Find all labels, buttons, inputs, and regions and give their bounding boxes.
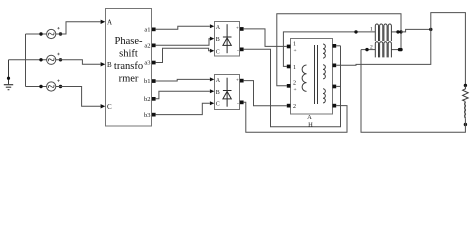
pin 1R of T2 — [333, 44, 337, 48]
pin B of D1 — [210, 37, 220, 44]
svg-text:b1: b1 — [144, 78, 151, 85]
wire: T2 pin 3R stub — [336, 85, 340, 87]
wire: output top rail to load — [431, 13, 466, 86]
svg-text:A: A — [107, 19, 112, 27]
svg-text:transfo: transfo — [114, 61, 143, 72]
node: load bottom dot — [464, 123, 467, 126]
winding primary of T2 — [302, 65, 306, 91]
pin 2+ of T2 — [287, 81, 297, 94]
AC source V1 — [39, 27, 62, 39]
pin 2- of T2 — [287, 104, 296, 110]
rectifier bridge D1 — [215, 22, 240, 57]
svg-text:1: 1 — [370, 26, 373, 32]
pin b3 of U1 — [144, 112, 156, 119]
pin A of D1 — [210, 24, 221, 31]
pin 3R of T2 — [333, 85, 337, 89]
AC source V2 — [39, 53, 62, 65]
ground — [4, 60, 13, 90]
core of T2 — [315, 45, 318, 104]
pin a1 of U1 — [144, 27, 155, 34]
pin A of D2 — [210, 77, 221, 84]
svg-text:A: A — [216, 78, 221, 84]
pin 4R of T2 — [333, 104, 337, 108]
svg-text:2: 2 — [293, 81, 296, 87]
pin minus of D1 — [237, 48, 243, 54]
svg-text:+: + — [236, 27, 239, 32]
AC source V3 — [39, 80, 62, 92]
winding secondary 1 of T2 — [323, 44, 325, 58]
pin 2R of T2 — [333, 64, 337, 68]
transformer U1 phase-shift transformer block — [106, 9, 152, 127]
pin b1 of U1 — [144, 78, 156, 85]
wire: a1 to bridge D1 pin A — [156, 26, 210, 29]
node: interphase windings right junction top — [399, 30, 402, 33]
wire: load bottom to return rail — [361, 50, 465, 133]
svg-text:a3: a3 — [144, 60, 150, 67]
winding secondary 2 of T2 — [323, 65, 325, 79]
multi-winding transformer T2 — [291, 39, 333, 115]
wire: ground to source bus — [9, 59, 47, 61]
wire: D2 minus to bottom rail to T2 pin 4R — [244, 102, 347, 132]
svg-text:B: B — [216, 90, 220, 96]
wire: D1 minus down to bottom rail — [244, 46, 341, 127]
svg-text:C: C — [216, 102, 220, 108]
node: output junction dot — [429, 28, 432, 31]
wire: winding 2 left lead — [361, 49, 375, 51]
wire: V3 to port C — [56, 87, 101, 107]
diode symbol of D1 — [223, 24, 232, 53]
interphase inductor winding 1 — [354, 24, 399, 41]
wire: V1 to port A — [56, 22, 101, 34]
wire: D1 plus to T2 pin 1a — [244, 29, 287, 47]
wire: bus to source V1 — [26, 33, 47, 35]
svg-text:Phase-: Phase- — [115, 36, 143, 47]
pin b2 of U1 — [144, 96, 156, 103]
pin B of D2 — [210, 89, 220, 96]
wire: T2 pin 1R stub — [336, 45, 340, 47]
wire: bus to source V3 — [26, 86, 47, 88]
node: interphase windings right junction bottom — [399, 48, 402, 51]
pin a2 of U1 — [144, 43, 155, 50]
wire: left vertical bus — [25, 34, 27, 87]
wire: top rail from T2 pin 2a to interphase junction — [277, 14, 401, 86]
svg-text:C: C — [107, 103, 112, 111]
label A under T2 — [307, 114, 312, 121]
label H under T2 — [308, 121, 313, 128]
wire: a2 to bridge D1 pin B — [156, 39, 210, 46]
pin C of D1 — [210, 49, 220, 56]
wire: output tap to load corner — [401, 29, 431, 32]
interphase inductor winding 2 — [365, 42, 401, 58]
pin C of D2 — [210, 101, 220, 108]
wire: V2 to port B — [56, 60, 101, 65]
pin plus of D1 — [236, 27, 244, 32]
pin C of U1 — [101, 103, 112, 111]
wire: a3 to bridge D1 pin C — [156, 48, 210, 62]
node: ground stem junction dot — [7, 77, 10, 80]
svg-text:a2: a2 — [144, 43, 150, 50]
svg-text:2: 2 — [293, 104, 296, 110]
svg-text:rmer: rmer — [119, 74, 139, 85]
pin a3 of U1 — [144, 60, 155, 67]
svg-text:+: + — [294, 48, 297, 54]
svg-text:2: 2 — [370, 44, 373, 50]
pin plus of D2 — [236, 78, 244, 83]
diode symbol of D2 — [223, 78, 232, 107]
svg-text:+: + — [236, 78, 239, 83]
pin A of U1 — [101, 19, 112, 27]
rectifier bridge D2 — [215, 75, 240, 110]
pin minus of D2 — [237, 101, 243, 107]
resistor R load — [463, 85, 469, 101]
pin 1- of T2 — [287, 65, 296, 71]
svg-text:H: H — [308, 121, 313, 128]
svg-text:shift: shift — [119, 49, 138, 60]
svg-text:1: 1 — [293, 65, 296, 71]
wire: b3 to bridge D2 pin C — [156, 103, 210, 114]
svg-text:A: A — [216, 25, 221, 31]
svg-text:a1: a1 — [144, 27, 150, 34]
svg-text:+: + — [294, 87, 297, 93]
svg-text:C: C — [216, 49, 220, 55]
pin 1+ of T2 — [287, 41, 297, 54]
wire: b1 to bridge D2 pin A — [156, 79, 210, 81]
pin B of U1 — [101, 61, 112, 69]
svg-text:B: B — [107, 61, 112, 69]
wire: winding 1 left lead to T2 pin 1b — [283, 32, 375, 67]
wire: D2 plus to T2 pin 2b — [244, 81, 287, 106]
svg-text:b3: b3 — [144, 112, 151, 119]
node: load top dot — [464, 84, 467, 87]
inductor L load — [464, 102, 467, 118]
svg-text:1: 1 — [293, 41, 296, 47]
wire: b2 to bridge D2 pin B — [156, 91, 210, 99]
svg-text:B: B — [216, 37, 220, 43]
svg-text:A: A — [307, 114, 312, 121]
svg-text:b2: b2 — [144, 96, 151, 103]
wire: T2 pin 2R to output junction — [336, 29, 431, 65]
winding secondary 3 of T2 — [323, 89, 325, 103]
